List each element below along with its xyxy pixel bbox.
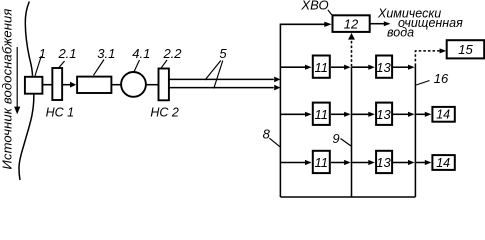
svg-text:13: 13 [376, 107, 391, 122]
svg-text:11: 11 [315, 107, 329, 122]
svg-text:1: 1 [39, 46, 46, 61]
svg-text:9: 9 [332, 131, 339, 146]
svg-text:14: 14 [436, 108, 450, 122]
svg-text:11: 11 [315, 155, 329, 170]
svg-text:8: 8 [263, 127, 271, 142]
svg-text:14: 14 [436, 156, 450, 170]
svg-text:5: 5 [219, 46, 227, 61]
svg-text:13: 13 [376, 155, 391, 170]
svg-text:вода: вода [387, 26, 414, 40]
svg-text:2.1: 2.1 [57, 46, 76, 61]
svg-text:11: 11 [315, 60, 329, 75]
svg-text:3.1: 3.1 [97, 46, 115, 61]
svg-text:НС 1: НС 1 [46, 105, 74, 119]
svg-text:ХВО: ХВО [300, 0, 328, 12]
svg-text:15: 15 [458, 42, 473, 57]
svg-text:НС 2: НС 2 [150, 105, 179, 119]
svg-text:4.1: 4.1 [132, 46, 150, 61]
svg-text:16: 16 [434, 71, 449, 86]
svg-text:2.2: 2.2 [162, 46, 182, 61]
svg-text:13: 13 [376, 60, 391, 75]
svg-text:Источник водоснабжения: Источник водоснабжения [0, 9, 15, 170]
svg-text:12: 12 [344, 16, 359, 31]
